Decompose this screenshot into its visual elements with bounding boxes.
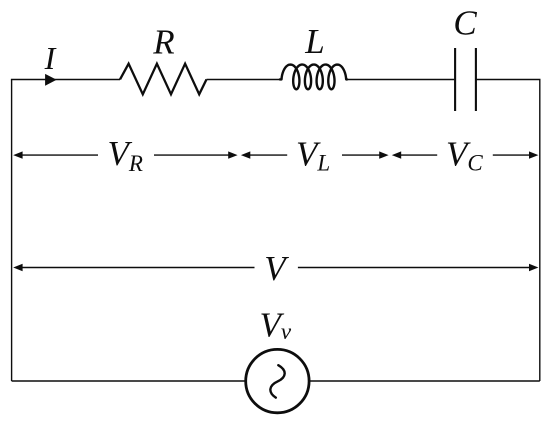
wire left vertical <box>11 80 13 382</box>
wire capacitor to right corner <box>477 79 541 81</box>
svg-text:I: I <box>44 40 57 76</box>
wire right vertical <box>539 80 541 382</box>
label VC <box>446 135 483 176</box>
wire bottom left segment <box>12 380 247 382</box>
label VR <box>108 134 143 176</box>
label V <box>264 249 289 288</box>
wire inductor to capacitor <box>347 79 454 81</box>
voltage arrow VC <box>392 151 539 158</box>
inductor L <box>280 65 347 90</box>
svg-text:V: V <box>264 249 289 288</box>
svg-text:L: L <box>304 22 324 61</box>
capacitor C plate right <box>475 48 477 111</box>
svg-text:R: R <box>152 22 174 61</box>
label I <box>44 40 57 76</box>
wire bottom right segment <box>309 380 540 382</box>
wire resistor to inductor <box>207 79 281 81</box>
svg-text:C: C <box>453 4 477 43</box>
label Vv <box>260 306 292 345</box>
resistor R <box>120 64 207 95</box>
voltage arrow VL <box>241 151 389 158</box>
voltage arrow VR <box>13 151 237 158</box>
label L <box>304 22 324 61</box>
label R <box>152 22 174 61</box>
capacitor C plate left <box>454 48 456 111</box>
label VL <box>296 135 330 176</box>
label C <box>453 4 477 43</box>
wire top left segment <box>11 79 120 81</box>
ac source Vv <box>246 349 309 412</box>
voltage arrow V <box>13 264 538 271</box>
current arrow <box>45 74 57 86</box>
